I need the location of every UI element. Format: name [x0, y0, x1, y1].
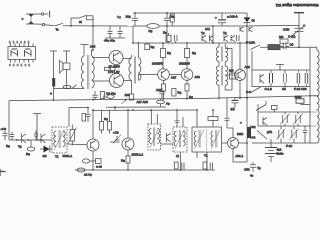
wire mid box y86.5	[252, 86, 310, 88]
svg-text:2N15/W: 2N15/W	[179, 62, 190, 66]
IF can B	[148, 124, 161, 150]
wire mid box y70	[252, 69, 310, 71]
wire TR2 primary top	[92, 50, 94, 56]
wire speaker branch to rail	[53, 89, 55, 101]
capacitor C5m	[282, 70, 286, 91]
capacitor C16a	[126, 13, 139, 26]
svg-text:A10: A10	[156, 88, 162, 92]
resistor R21	[272, 106, 278, 113]
wire TR1 sec to Q1 base	[138, 75, 157, 81]
resistor Rc2	[185, 43, 197, 69]
resistor R11	[93, 159, 102, 169]
electrolytic C17	[215, 13, 226, 26]
transistor Q4	[63, 139, 100, 158]
junction dot (247,143)	[246, 142, 248, 144]
IF can D	[192, 127, 222, 158]
wire vertical x93 down	[92, 26, 94, 50]
wire Tb to Q3 base	[225, 74, 234, 76]
electrolytic C62	[240, 121, 256, 163]
wire Q1-Q2 coupling	[169, 74, 181, 76]
wire R1 to node	[92, 18, 94, 26]
transistor T8 mark	[17, 134, 27, 144]
capacitor C16b	[164, 13, 175, 26]
svg-text:a A13-A: a A13-A	[227, 15, 238, 19]
wire tone net	[105, 37, 125, 39]
capacitor C4	[10, 132, 14, 141]
svg-text:A17: A17	[171, 76, 177, 80]
svg-text:Tg: Tg	[223, 31, 227, 35]
fuse oval Rg	[147, 24, 159, 29]
svg-text:A06: A06	[90, 45, 96, 49]
junction dot x93	[92, 25, 94, 27]
svg-text:40n 40n: 40n 40n	[104, 39, 115, 43]
svg-text:141: 141	[205, 27, 210, 31]
wire can D leads	[197, 110, 213, 127]
junction dots bus y170	[92, 169, 208, 171]
emitter resistor Re2	[111, 67, 116, 70]
resistor Rd2	[104, 110, 112, 134]
variable capacitor CV3	[277, 126, 286, 143]
wire T1 to Q4 base	[67, 143, 87, 146]
wire Q4 collector	[92, 110, 94, 139]
capacitor bar Kb	[63, 51, 70, 63]
resistor R9	[100, 92, 104, 99]
svg-text:414141: 414141	[9, 63, 32, 67]
wire y88.5	[54, 88, 85, 90]
switch mark near TR2	[72, 85, 77, 89]
junction dot (88,107.5)	[87, 107, 89, 109]
wire Q5 collector	[127, 110, 129, 138]
svg-text:Rg: Rg	[149, 29, 153, 33]
wire osc top	[298, 13, 300, 27]
wire TR2 sec top to Q7	[92, 57, 109, 59]
svg-text:+: +	[240, 121, 242, 125]
emitter resistor Re1	[105, 67, 110, 70]
rail A sloped	[9, 96, 318, 101]
resistor R20	[82, 114, 86, 122]
capacitor C3	[1, 127, 11, 148]
svg-text:Sternchenradios Signal 601: Sternchenradios Signal 601	[275, 3, 318, 7]
wire Q3 emitter	[239, 81, 241, 98]
potentiometer P1	[68, 125, 77, 146]
junction dot (135,13)	[134, 12, 136, 14]
wire Q8 base to TR1	[124, 80, 132, 82]
svg-text:C5: C5	[282, 87, 286, 91]
corner mark bottom left	[0, 169, 6, 176]
electrolytic C1m	[265, 70, 273, 91]
transistor T11 mark	[263, 117, 267, 126]
junction dot (213,26)	[212, 25, 214, 27]
diode Gl	[244, 13, 255, 26]
wire speaker bottom	[66, 70, 68, 89]
resistor R1	[87, 16, 94, 20]
transistor pair T6	[201, 31, 214, 43]
svg-text:G2: G2	[43, 154, 47, 158]
contact bar	[49, 11, 51, 17]
svg-text:Rg: Rg	[178, 91, 182, 95]
capacitor bar Kc	[33, 114, 41, 140]
resistor Rf on rail	[145, 44, 155, 50]
wire bus y26 mid	[133, 25, 247, 27]
svg-text:U-8: U-8	[251, 136, 256, 140]
transistor pair T7	[223, 31, 235, 42]
svg-text:Rg: Rg	[104, 117, 108, 121]
junction dots rail D	[92, 109, 198, 111]
switch block Tastensatz	[8, 40, 36, 67]
resistor DR	[268, 45, 280, 50]
capacitor C8	[237, 35, 240, 41]
capacitor C15	[303, 126, 307, 143]
wire Q4 base junction to can B	[121, 144, 124, 146]
wire rail y43	[133, 42, 247, 44]
bus y170	[75, 169, 215, 171]
contact circle K2	[42, 23, 44, 25]
switch U-B	[251, 130, 273, 140]
wire Q6 base	[222, 142, 228, 144]
box rail y126	[258, 125, 310, 127]
resistor R10	[172, 89, 176, 97]
wire to switch Ts	[45, 24, 54, 27]
capacitor bar above TR2	[81, 45, 89, 57]
transistor T10 mark	[167, 133, 171, 142]
capacitor C30 top mid	[108, 26, 113, 38]
svg-text:C2 40n: C2 40n	[106, 92, 116, 96]
IF transformer Ta	[216, 43, 227, 66]
resistor R13	[208, 117, 218, 121]
wire to contact bar	[44, 13, 48, 15]
svg-text:F-10: F-10	[286, 144, 293, 148]
wire top rail y13	[133, 12, 247, 14]
junction dot (213,110)	[212, 109, 214, 111]
transistor T5b mark	[249, 27, 253, 32]
wire left edge mid box	[251, 51, 253, 87]
wire jack top contact	[36, 13, 41, 15]
resistor RG2	[279, 35, 288, 43]
emitter resistor Re3	[162, 80, 166, 99]
svg-text:F-10 C36: F-10 C36	[294, 87, 307, 91]
capacitor bar Ka	[50, 51, 57, 89]
component MS	[229, 69, 236, 80]
svg-text:J1: J1	[176, 154, 180, 158]
junction dot (247,26)	[246, 25, 248, 27]
svg-text:Tg: Tg	[201, 31, 205, 35]
wire Q7 base to TR1	[123, 58, 132, 60]
oval on wire	[63, 86, 71, 89]
resistor R7 on rail	[163, 31, 171, 44]
svg-text:C-(C): C-(C)	[288, 34, 295, 38]
wire Q4 emitter	[92, 151, 94, 170]
capacitor C31 top mid	[118, 26, 123, 38]
junction dots rail A	[53, 95, 311, 101]
capacitor C7	[175, 35, 178, 43]
resistor Rd1	[100, 110, 104, 134]
oval Rg5	[83, 159, 94, 163]
mark under title	[294, 12, 304, 14]
wire x232 loop	[225, 49, 232, 91]
wire vertical x213	[212, 26, 214, 43]
junction dot (93,50)	[92, 49, 94, 51]
svg-text:Rg: Rg	[117, 15, 121, 19]
capacitor C5	[34, 131, 38, 141]
svg-text:Rg: Rg	[26, 152, 30, 156]
svg-text:Rg: Rg	[192, 51, 196, 55]
switch Ts	[55, 23, 64, 26]
svg-text:Tg: Tg	[18, 145, 22, 149]
contact group S-a	[11, 49, 18, 57]
svg-text:Ts: Ts	[56, 28, 60, 32]
svg-text:A03: A03	[195, 75, 201, 79]
wire link rails	[114, 107, 116, 110]
wire Q5 emitter + resistor R12	[121, 150, 130, 170]
wire right edge upper	[309, 47, 311, 96]
rail C	[69, 106, 166, 109]
wire can B leads	[151, 110, 173, 144]
switch St	[79, 15, 87, 18]
capacitor C52	[244, 162, 261, 178]
svg-text:2G15/W: 2G15/W	[152, 62, 163, 66]
variable capacitor CV2	[293, 112, 303, 126]
junction dot x71	[70, 25, 72, 27]
svg-text:16µ: 16µ	[126, 15, 131, 19]
capacitor C20	[86, 114, 91, 122]
svg-text:+: +	[215, 16, 217, 20]
svg-text:Rg: Rg	[163, 31, 167, 35]
IF can C	[173, 127, 187, 158]
box rail y112	[258, 111, 310, 113]
oval Rg6	[77, 168, 92, 177]
capacitor C11	[232, 98, 239, 108]
switch S2	[251, 45, 261, 50]
resistor St1	[170, 14, 174, 22]
capacitor C9	[92, 91, 97, 100]
svg-text:St: St	[79, 20, 82, 24]
capacitor C2r	[280, 43, 289, 49]
IF can T1	[52, 127, 67, 159]
svg-text:Rg: Rg	[6, 144, 10, 148]
svg-text:RG: RG	[279, 35, 284, 39]
transistor Q7	[109, 51, 124, 69]
ground bar mid box	[276, 65, 284, 71]
wire branch x88 down	[87, 108, 89, 114]
frame left vertical	[8, 101, 10, 140]
IF transformer Tb	[216, 66, 232, 99]
component C63	[296, 96, 310, 105]
svg-text:Rg: Rg	[167, 51, 171, 55]
svg-text:.901.1: .901.1	[235, 154, 244, 158]
speaker	[60, 60, 71, 73]
svg-text:MS2: MS2	[237, 132, 244, 136]
contact group S-b	[25, 49, 32, 57]
svg-text:Tg: Tg	[257, 166, 261, 170]
variable capacitor CV1	[280, 112, 290, 126]
wire Q3 collector	[239, 43, 241, 69]
svg-text:OSZ: OSZ	[283, 28, 289, 32]
box right edge	[309, 96, 311, 143]
svg-text:111111: 111111	[9, 40, 32, 44]
svg-text:0S01.1: 0S01.1	[63, 154, 73, 158]
electrolytic C36m	[294, 70, 308, 91]
trimmer capacitor OSZ	[283, 25, 306, 47]
antenna coil L1	[310, 47, 319, 143]
junction dot (115,107.2)	[114, 106, 116, 108]
svg-text:+C2: +C2	[113, 131, 119, 135]
wire branch up x71	[71, 18, 79, 26]
wire jack lower	[36, 23, 42, 25]
rail D	[93, 109, 197, 111]
resistor 0,2W dark	[50, 78, 55, 96]
driver transformer TR1	[129, 57, 141, 84]
capacitor C10	[159, 88, 164, 99]
svg-text:Ag: Ag	[166, 102, 170, 106]
oval Rg3 on rail A	[107, 95, 114, 99]
svg-text:Rg: Rg	[189, 95, 193, 99]
wire bottom row y140	[9, 139, 52, 141]
svg-text:µF1: µF1	[267, 130, 273, 134]
svg-text:C52: C52	[244, 168, 250, 172]
oval Ag bridge	[157, 99, 171, 107]
capacitor C10m	[297, 70, 300, 87]
earphone jack Bu	[21, 14, 36, 24]
switch S4	[256, 101, 266, 111]
output transformer TR2	[81, 55, 94, 89]
junction dot (167,26)	[166, 25, 168, 27]
wire TR2 sec bottom to Q8	[92, 80, 110, 82]
svg-text:1000: 1000	[295, 95, 302, 99]
wire vertical x167	[166, 26, 168, 43]
wire Q6 collector right	[239, 142, 247, 144]
wire TR1 top lead	[132, 43, 139, 58]
resistor A08	[125, 93, 134, 100]
capacitor C14	[225, 98, 234, 137]
contact circle K1	[41, 13, 43, 15]
svg-text:MS: MS	[229, 69, 234, 73]
box rail y143	[252, 142, 310, 144]
svg-text:+C3: +C3	[1, 127, 7, 131]
wire vertical x247	[246, 26, 248, 127]
svg-text:2608.1.1: 2608.1.1	[132, 153, 144, 157]
svg-text:a-c2: a-c2	[96, 165, 102, 169]
arrow mark	[122, 99, 128, 104]
resistor-cap pair P2	[174, 162, 184, 170]
transistor Q1	[152, 62, 169, 81]
svg-text:C62: C62	[250, 125, 256, 129]
transistor T12 mark	[260, 74, 264, 84]
junction dots y140	[16, 139, 41, 141]
transistor T5a mark	[240, 27, 244, 32]
resistor-cap pair P3	[203, 162, 212, 170]
svg-text:Rg: Rg	[121, 159, 125, 163]
switch S3	[250, 87, 261, 93]
svg-text:(C): (C)	[231, 107, 235, 111]
svg-text:C-1.3: C-1.3	[265, 87, 273, 91]
svg-text:A08: A08	[125, 93, 131, 97]
wire TR1 bottom tap	[131, 80, 133, 94]
box left edge	[257, 104, 259, 126]
wire Q6 emitter	[233, 149, 247, 162]
svg-text:4s: 4s	[250, 174, 254, 178]
emitter resistor Re4	[185, 80, 189, 98]
transistor Q6	[228, 132, 244, 158]
transistor Q3	[235, 65, 251, 81]
wire can D bottom leads	[181, 152, 208, 170]
wire vertical x133	[132, 26, 134, 43]
svg-text:Gl: Gl	[252, 19, 255, 23]
diode Gl2	[40, 146, 52, 159]
svg-text:Batte: Batte	[277, 152, 284, 156]
wire bus y26 right	[247, 24, 299, 27]
wire bus y26 left	[63, 25, 133, 27]
junction dot (167,13)	[166, 12, 168, 14]
junction dots rail y43	[132, 42, 248, 44]
resistor Rc1	[161, 43, 172, 69]
marks on rail A	[104, 96, 107, 99]
variable capacitor CV4	[290, 126, 299, 143]
oval Rg4	[26, 140, 35, 156]
capacitor C12	[110, 131, 121, 144]
svg-text:T1: T1	[55, 155, 59, 159]
transistor Q8	[108, 70, 124, 88]
svg-text:A17 A03: A17 A03	[137, 100, 149, 104]
transistor T9 mark	[41, 134, 46, 144]
svg-text:a3 Ag: a3 Ag	[84, 173, 92, 177]
wire St1 stub	[171, 22, 173, 26]
transistor Q5	[122, 138, 144, 157]
wire TR2 primary bottom	[83, 87, 85, 90]
svg-text:C2: C2	[290, 43, 294, 47]
transistor Q2	[179, 62, 193, 81]
battery B1	[265, 139, 284, 162]
wire y47 right row	[260, 46, 310, 48]
junction dot (299,47)	[298, 46, 300, 48]
svg-text:Rg: Rg	[151, 45, 155, 49]
wire can C leads	[177, 110, 183, 127]
